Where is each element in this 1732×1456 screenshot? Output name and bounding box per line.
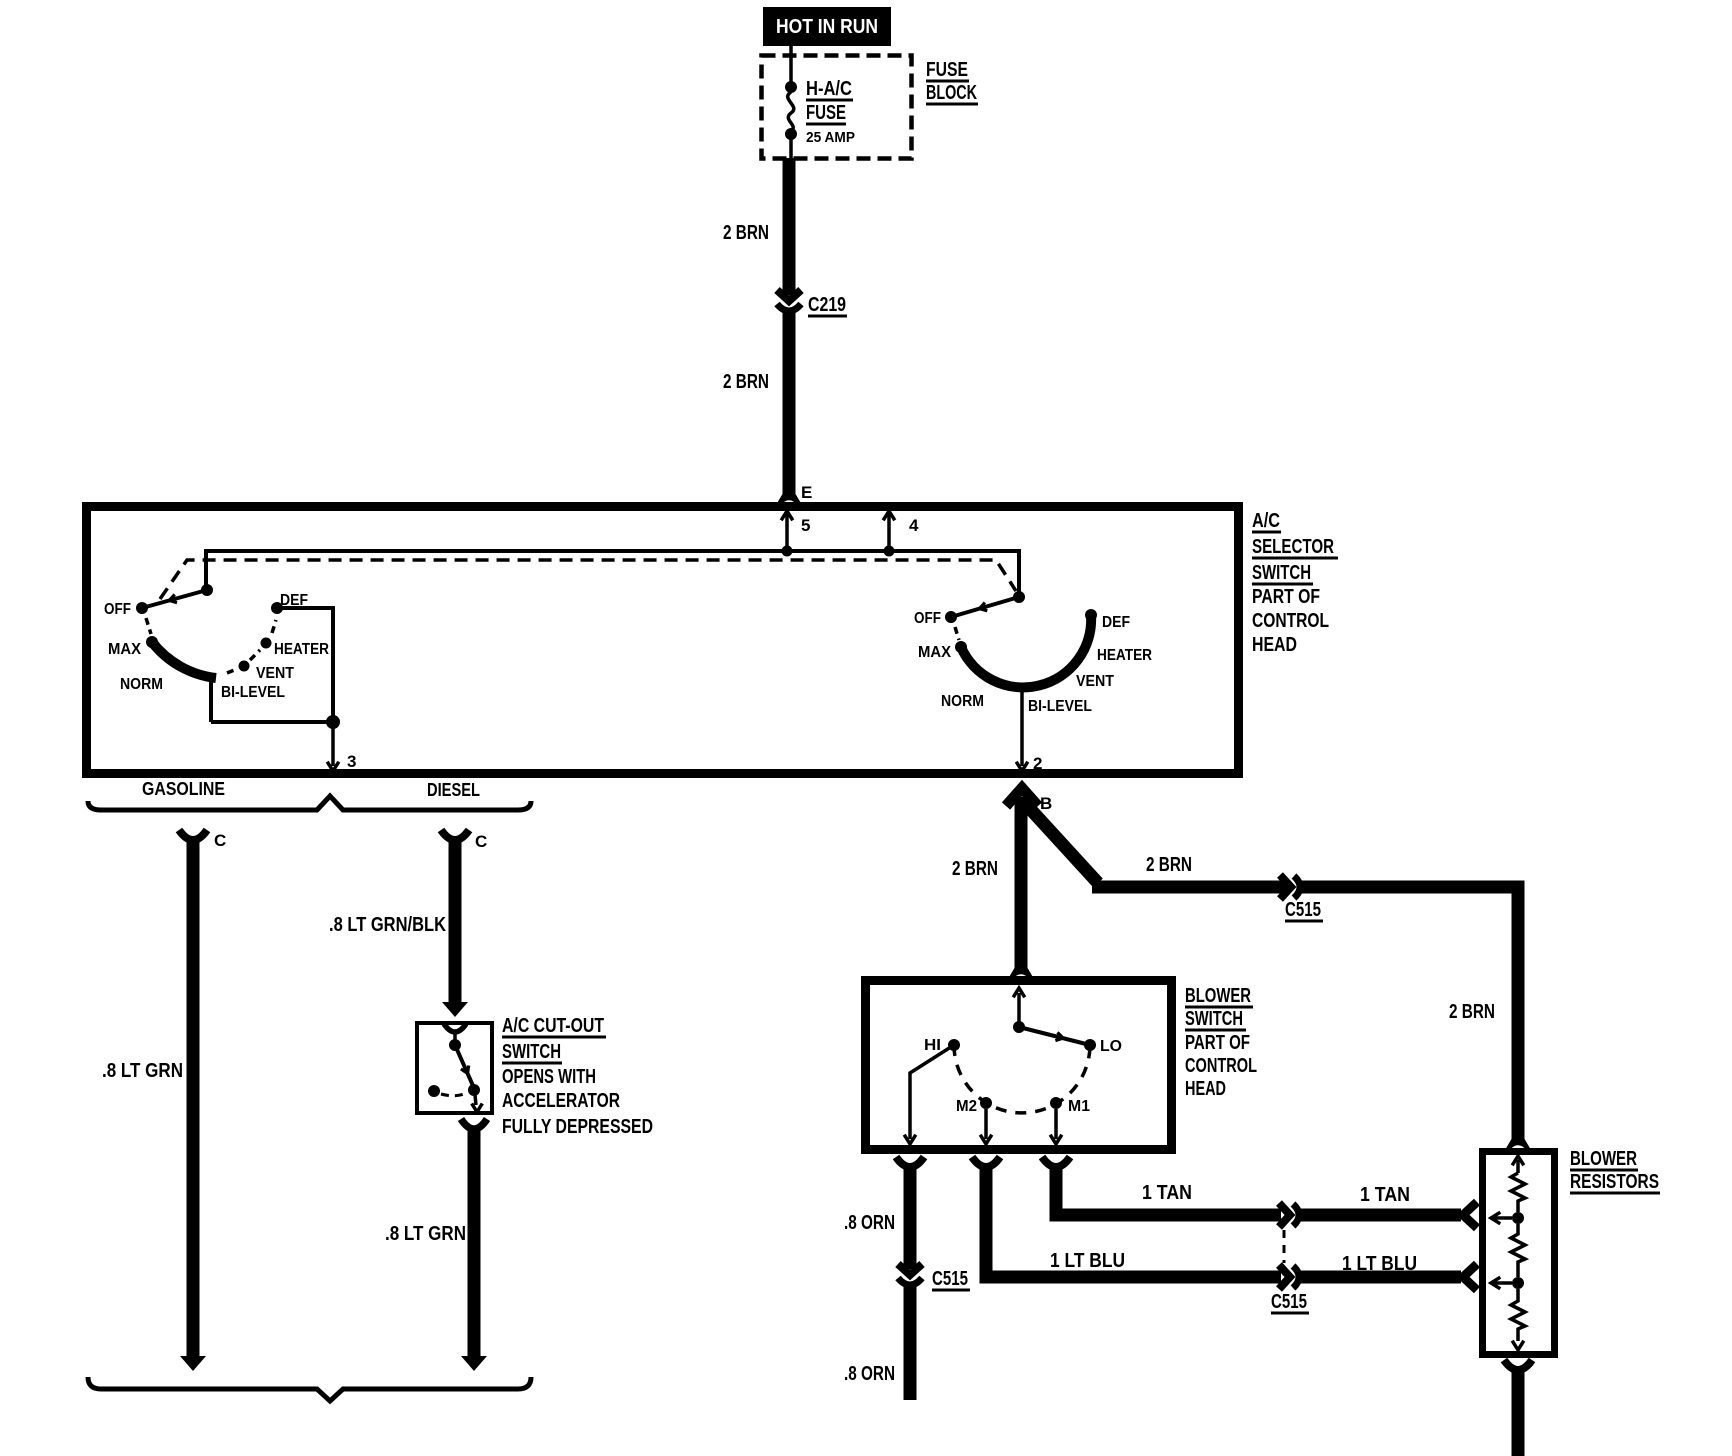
node: junction dot pin 3 (326, 715, 340, 729)
svg-text:BLOWER: BLOWER (1185, 985, 1251, 1007)
right rotary wiper to OFF (951, 597, 1019, 617)
svg-text:OPENS WITH: OPENS WITH (502, 1066, 596, 1088)
fuse H-A/C FUSE 25 AMP element (788, 92, 794, 131)
cut-out contact bottom dot (468, 1084, 480, 1096)
left rotary thick arc MAX to BI-LEVEL (152, 642, 216, 678)
svg-text:DEF: DEF (1102, 614, 1130, 631)
left rotary wiper to OFF (142, 590, 207, 608)
node: resistor tap 1 dot (1512, 1212, 1524, 1224)
blower switch box S1 (866, 981, 1172, 1150)
svg-text:OFF: OFF (104, 601, 131, 618)
svg-text:VENT: VENT (256, 665, 294, 682)
left contact HEATER (261, 638, 272, 649)
svg-text:.8 LT GRN: .8 LT GRN (102, 1060, 183, 1082)
svg-text:.8 LT GRN/BLK: .8 LT GRN/BLK (329, 914, 446, 936)
connector C515 on 1 TAN (1279, 1203, 1290, 1227)
svg-text:1 LT BLU: 1 LT BLU (1342, 1253, 1417, 1275)
svg-text:HEAD: HEAD (1252, 634, 1297, 656)
svg-text:LO: LO (1100, 1038, 1122, 1055)
wire 2 BRN C219 to node E (783, 311, 796, 496)
wire DEF to pin 3 corner (277, 608, 333, 722)
node: fuse bottom terminal dot (785, 128, 797, 140)
blower dashed arc HI-M2-M1-LO (954, 1045, 1090, 1113)
svg-text:PART OF: PART OF (1252, 586, 1320, 608)
connector cup at resistors (1 LT BLU) (1463, 1264, 1477, 1290)
svg-text:NORM: NORM (120, 676, 163, 693)
connector skirt into blower switch top (1008, 967, 1034, 979)
blower contact M2 (980, 1097, 992, 1109)
svg-text:SWITCH: SWITCH (502, 1041, 561, 1063)
left contact VENT (239, 661, 250, 672)
svg-text:2 BRN: 2 BRN (1146, 854, 1192, 876)
svg-text:C: C (214, 831, 226, 850)
wire BI-LEVEL bottom bar (211, 720, 333, 724)
dashed link left contact (441, 1093, 467, 1096)
blower contact HI (948, 1039, 960, 1051)
resistor internal top arrow (1516, 1160, 1520, 1173)
pin 5 arrow (785, 514, 789, 550)
connector cup below cut-out (461, 1119, 487, 1129)
svg-text:.8 ORN: .8 ORN (844, 1363, 895, 1385)
wire 1 LT BLU right (1300, 1271, 1461, 1284)
pin 4 arrow (887, 514, 891, 550)
wire below resistors to edge (1512, 1370, 1525, 1456)
svg-text:CONTROL: CONTROL (1252, 610, 1329, 632)
node E connector skirt at selector switch pin E (776, 493, 802, 505)
connector C219 (777, 290, 801, 301)
pin 3 arrow (331, 722, 335, 766)
svg-text:HI: HI (924, 1037, 941, 1054)
svg-text:FUSE: FUSE (926, 59, 968, 81)
wire .8 LT GRN/BLK diesel (449, 840, 462, 1003)
svg-text:MAX: MAX (918, 644, 951, 661)
svg-text:1 TAN: 1 TAN (1142, 1182, 1192, 1204)
wire 1 TAN left (1056, 1166, 1281, 1215)
cut-out contact top dot (449, 1039, 461, 1051)
resistor internal bottom arrow (1512, 1341, 1524, 1350)
svg-text:FULLY DEPRESSED: FULLY DEPRESSED (502, 1116, 653, 1138)
svg-text:B: B (1040, 794, 1052, 813)
wire 2 BRN diagonal branch (1022, 800, 1098, 883)
left contact DEF (271, 602, 283, 614)
svg-text:FUSE: FUSE (806, 102, 846, 124)
connector cup below blower (HI wire) (896, 1157, 924, 1167)
svg-text:VENT: VENT (1076, 673, 1114, 690)
svg-text:A/C CUT-OUT: A/C CUT-OUT (502, 1015, 604, 1037)
brace bottom (88, 1377, 531, 1401)
svg-text:M1: M1 (1068, 1098, 1090, 1115)
node: fuse top terminal dot (785, 81, 797, 93)
wire 2 BRN to right corner and down to resistors (1301, 887, 1518, 1141)
svg-text:A/C: A/C (1252, 510, 1280, 532)
blower resistors box R1 (1483, 1152, 1555, 1355)
svg-text:HEATER: HEATER (274, 641, 329, 658)
cut-out contact left dot (428, 1085, 440, 1097)
wire: internal feed bus (solid) (206, 551, 1019, 592)
svg-text:C515: C515 (932, 1268, 968, 1290)
connector cup below resistors (1504, 1360, 1532, 1370)
svg-text:SWITCH: SWITCH (1252, 562, 1311, 584)
cut-out wiper blade (455, 1045, 474, 1088)
right rotary thick arc MAX to DEF (961, 615, 1091, 687)
svg-text:BI-LEVEL: BI-LEVEL (221, 684, 285, 701)
wire 1 LT BLU left (986, 1166, 1281, 1277)
resistor element 1 (1511, 1173, 1525, 1212)
svg-text:SELECTOR: SELECTOR (1252, 536, 1334, 558)
svg-text:GASOLINE: GASOLINE (142, 779, 225, 799)
svg-text:OFF: OFF (914, 610, 941, 627)
blower contact M1 (1050, 1097, 1062, 1109)
right rotary switch pivot (1013, 591, 1025, 603)
svg-text:BLOCK: BLOCK (926, 82, 977, 104)
svg-text:DIESEL: DIESEL (427, 780, 480, 800)
dashed link between C515 connectors (1283, 1230, 1286, 1263)
svg-text:BLOWER: BLOWER (1570, 1148, 1637, 1170)
svg-text:C219: C219 (808, 294, 846, 316)
left rotary switch pivot (201, 584, 213, 596)
svg-text:PART OF: PART OF (1185, 1032, 1250, 1054)
wire .8 LT GRN gasoline (187, 840, 200, 1357)
blower wiper to LO (1019, 1027, 1090, 1045)
svg-text:25 AMP: 25 AMP (806, 129, 855, 146)
svg-text:5: 5 (801, 516, 810, 535)
arrow end gasoline wire (180, 1356, 206, 1371)
connector C diesel (441, 830, 469, 840)
svg-text:DEF: DEF (280, 592, 308, 609)
svg-text:E: E (801, 483, 812, 502)
fuse block dashed box (762, 56, 912, 159)
left contact OFF (136, 602, 148, 614)
connector C gasoline (179, 830, 207, 840)
node: junction dot pin 5 (782, 546, 793, 557)
svg-text:CONTROL: CONTROL (1185, 1055, 1257, 1077)
node: junction dot pin 4 (884, 546, 895, 557)
svg-text:SWITCH: SWITCH (1185, 1008, 1243, 1030)
svg-text:2 BRN: 2 BRN (1449, 1001, 1495, 1023)
svg-text:MAX: MAX (108, 641, 141, 658)
svg-text:1 LT BLU: 1 LT BLU (1050, 1250, 1125, 1272)
cut-out exit arrow (475, 1095, 476, 1105)
svg-text:2 BRN: 2 BRN (723, 222, 769, 244)
arrow end diesel wire (461, 1356, 487, 1371)
wire: fuse internal lead top (789, 46, 793, 84)
node B thick arrow (1006, 788, 1038, 806)
resistor element 2 (1511, 1224, 1525, 1277)
svg-text:HOT IN RUN: HOT IN RUN (776, 16, 878, 38)
left contact MAX (146, 636, 158, 648)
A/C selector switch box U1 (87, 507, 1239, 774)
svg-text:HEATER: HEATER (1097, 647, 1152, 664)
svg-text:2 BRN: 2 BRN (723, 371, 769, 393)
pin 2 wire from arc bottom (1020, 689, 1024, 766)
blower pivot dot (1013, 1021, 1025, 1033)
connector cup below blower (M1 wire) (1042, 1157, 1070, 1167)
right contact MAX (955, 641, 967, 653)
wire 2 BRN horizontal to C515 (1092, 881, 1286, 894)
arrow into A/C cut-out switch (442, 1002, 468, 1017)
wire BI-LEVEL drop (209, 677, 213, 722)
node: resistor tap 2 dot (1512, 1277, 1524, 1289)
brace top gasoline/diesel (88, 796, 531, 810)
wire: internal dashed bus (160, 560, 1016, 599)
wire M1 to box bottom (1054, 1109, 1058, 1139)
svg-text:C515: C515 (1271, 1291, 1307, 1313)
dashed link BI-LEVEL-VENT (227, 669, 237, 673)
wire M2 to box bottom (984, 1109, 988, 1139)
connector C515 on .8 ORN (898, 1264, 922, 1275)
svg-text:2: 2 (1033, 754, 1042, 773)
svg-text:HEAD: HEAD (1185, 1078, 1226, 1100)
svg-text:BI-LEVEL: BI-LEVEL (1028, 698, 1092, 715)
wire 2 BRN node B down to blower switch (1015, 797, 1028, 970)
connector skirt into blower resistors top (1505, 1138, 1531, 1150)
label HOT IN RUN (763, 7, 891, 46)
svg-text:C515: C515 (1285, 899, 1321, 921)
svg-text:M2: M2 (956, 1098, 977, 1115)
connector C515 on 2 BRN (1280, 875, 1291, 899)
dashed link VENT-HEATER (250, 650, 260, 660)
right contact DEF (1085, 609, 1097, 621)
tap 2 arrow to box edge (1494, 1281, 1512, 1285)
right contact OFF (945, 611, 957, 623)
svg-text:.8 ORN: .8 ORN (844, 1212, 895, 1234)
wire HI to box bottom (910, 1045, 954, 1139)
svg-text:NORM: NORM (941, 693, 984, 710)
connector C515 on 1 LT BLU (1279, 1265, 1290, 1289)
wire 2 BRN fuse block to C219 (783, 158, 796, 295)
svg-text:H-A/C: H-A/C (806, 78, 852, 100)
blower contact LO (1084, 1039, 1096, 1051)
dashed link OFF-MAX (146, 618, 151, 634)
cut-out internal cup (444, 1024, 466, 1032)
wire .8 ORN upper (904, 1166, 917, 1269)
wire: fuse internal lead bottom (789, 138, 793, 159)
tap 1 arrow to box edge (1494, 1216, 1512, 1220)
dashed link OFF-MAX right (955, 627, 959, 640)
connector cup at resistors (1 TAN) (1463, 1202, 1477, 1228)
wire 1 TAN right (1300, 1209, 1461, 1222)
svg-text:1 TAN: 1 TAN (1360, 1184, 1410, 1206)
blower internal top arrow (1017, 993, 1021, 1022)
svg-text:.8 LT GRN: .8 LT GRN (385, 1223, 466, 1245)
resistor element 3 (1511, 1289, 1525, 1341)
A/C cut-out switch box S2 (417, 1023, 492, 1113)
svg-text:4: 4 (909, 516, 919, 535)
wire .8 ORN lower (904, 1285, 917, 1400)
connector cup below blower (M2 wire) (972, 1157, 1000, 1167)
svg-text:ACCELERATOR: ACCELERATOR (502, 1090, 620, 1112)
svg-text:3: 3 (347, 752, 356, 771)
svg-text:2 BRN: 2 BRN (952, 858, 998, 880)
wire .8 LT GRN diesel lower (468, 1130, 481, 1357)
svg-text:C: C (475, 832, 487, 851)
svg-text:RESISTORS: RESISTORS (1570, 1171, 1659, 1193)
dashed link HEATER-DEF (272, 620, 276, 633)
